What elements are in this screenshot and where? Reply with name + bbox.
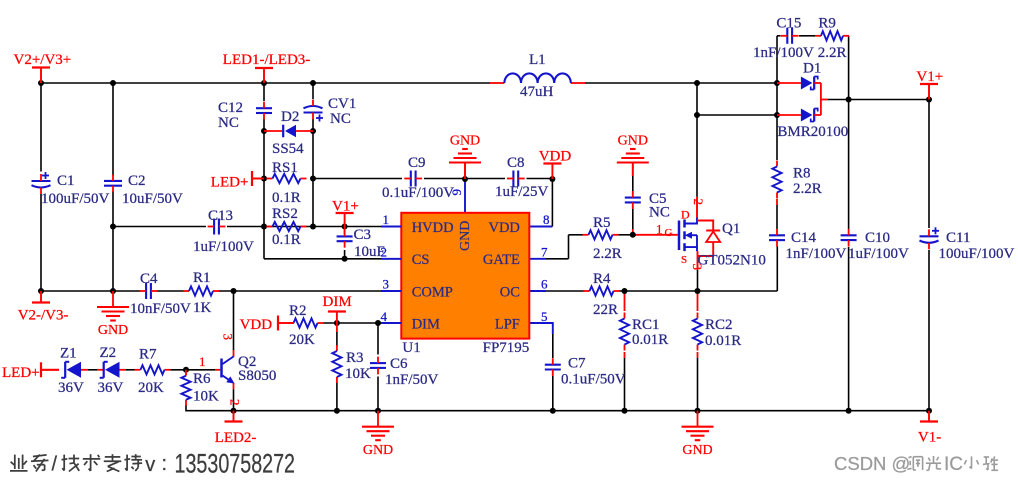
svg-text:1: 1 — [199, 354, 206, 369]
wire D1 lower anode row — [697, 114, 777, 116]
svg-text:S: S — [681, 254, 687, 266]
resistor R8 2.2R — [772, 161, 821, 199]
svg-text:D: D — [681, 208, 690, 222]
wire column x=264 upper — [263, 83, 265, 101]
wire column x=264 RS section — [263, 131, 265, 179]
svg-text:VDD: VDD — [240, 317, 273, 333]
junction dots D2 row — [261, 128, 267, 134]
svg-text:47uH: 47uH — [520, 84, 554, 100]
wire snubber top — [777, 35, 781, 37]
svg-text:NC: NC — [218, 115, 239, 131]
svg-text:10nF/50V: 10nF/50V — [130, 301, 191, 317]
wire C14 corner to source — [776, 247, 778, 292]
svg-text:SS54: SS54 — [272, 141, 304, 157]
wire R5 to gate junction — [619, 234, 633, 236]
svg-text:G: G — [665, 227, 673, 239]
svg-text:22R: 22R — [593, 302, 618, 318]
svg-text:5: 5 — [541, 309, 548, 324]
svg-text:1K: 1K — [193, 300, 212, 316]
wire column x=313 upper — [312, 83, 314, 99]
svg-text:C12: C12 — [218, 100, 243, 116]
resistor R3 10K — [332, 323, 371, 411]
capacitor C15 1nF/100V snubber — [753, 16, 814, 62]
svg-text:V1+: V1+ — [916, 69, 943, 85]
wire top rail V2+ to snubber left — [41, 82, 490, 84]
svg-text:VDD: VDD — [488, 220, 519, 236]
svg-text:NC: NC — [330, 111, 351, 127]
wire gate red — [633, 234, 678, 236]
svg-text:RS2: RS2 — [272, 206, 298, 222]
svg-text:10uF/50V: 10uF/50V — [122, 191, 183, 207]
wire column x=313 RS section — [312, 131, 314, 179]
diode D1 BMR20100 dual — [777, 61, 848, 141]
svg-text:GND: GND — [458, 221, 473, 251]
svg-text:0.01R: 0.01R — [705, 333, 741, 349]
svg-text:1nF/50V: 1nF/50V — [385, 372, 439, 388]
wire C5 gnd stem — [632, 163, 634, 177]
svg-text:GND: GND — [363, 443, 393, 458]
wire x929 vertical — [928, 100, 930, 229]
terminal DIM above R3 — [323, 294, 352, 323]
svg-text:10K: 10K — [345, 366, 371, 382]
svg-text:R7: R7 — [139, 347, 157, 363]
wire Q2 base row — [171, 369, 216, 371]
resistor R7 20K — [135, 347, 171, 397]
svg-text:GND: GND — [450, 134, 480, 149]
svg-text:1uF/100V: 1uF/100V — [193, 239, 254, 255]
svg-text:LED2-: LED2- — [215, 430, 257, 446]
svg-text:C11: C11 — [946, 230, 970, 246]
wire C13 pin1 row y=226.5 — [113, 226, 206, 228]
svg-text:GT052N10: GT052N10 — [698, 253, 766, 269]
junction dot R5 gate — [630, 232, 636, 238]
capacitor C13 1uF/100V — [193, 208, 254, 255]
node V1+ terminal at C3 — [332, 199, 359, 227]
wire Q2 collector — [233, 291, 235, 350]
ground GND above C9/C8 junction — [449, 134, 481, 180]
node LED+ terminal bottom left — [2, 362, 59, 381]
svg-text::: : — [162, 453, 168, 475]
capacitor C3 10uF — [337, 227, 385, 261]
svg-text:CS: CS — [412, 252, 430, 268]
capacitor C6 1nF/50V — [370, 323, 439, 411]
wire OC row — [529, 290, 546, 292]
svg-text:COMP: COMP — [412, 285, 453, 301]
svg-text:U1: U1 — [402, 340, 420, 356]
svg-text:C8: C8 — [507, 155, 525, 171]
capacitor CV1 NC polarized — [304, 96, 357, 127]
svg-text:3: 3 — [383, 277, 390, 292]
ground GND below C6 — [362, 411, 394, 458]
resistor R6 10K — [181, 370, 219, 406]
svg-text:RC1: RC1 — [632, 317, 660, 333]
terminal VDD at pin8 net — [539, 149, 572, 180]
wire COMP row y=291 — [41, 290, 140, 292]
resistor R9 2.2R snubber — [815, 16, 849, 62]
wire column x=113 (C2) — [112, 83, 114, 176]
svg-text:C4: C4 — [140, 271, 158, 287]
wire snubber x777 vertical — [776, 36, 778, 83]
pin stubs U1 left — [381, 226, 401, 228]
svg-text:1: 1 — [383, 212, 390, 227]
svg-text:0.1R: 0.1R — [272, 190, 301, 206]
svg-text:RS1: RS1 — [272, 160, 298, 176]
svg-text:10K: 10K — [193, 389, 219, 405]
svg-text:0.1uF/100V: 0.1uF/100V — [382, 185, 454, 201]
ground GND below RC2 — [682, 411, 714, 458]
svg-text:2.2R: 2.2R — [593, 246, 622, 262]
svg-text:OC: OC — [500, 285, 520, 301]
junction dot CS row — [342, 256, 348, 262]
svg-text:D2: D2 — [281, 109, 299, 125]
transistor Q2 S8050 — [199, 334, 276, 406]
node LED2- terminal — [215, 411, 257, 446]
svg-text:VDD: VDD — [539, 149, 572, 165]
svg-text:R3: R3 — [346, 350, 364, 366]
capacitor C2 10uF/50V — [104, 173, 183, 207]
svg-text:BMR20100: BMR20100 — [777, 124, 848, 140]
junction dots top rail — [38, 80, 44, 86]
resistor R2 20K — [288, 303, 324, 348]
node V1- terminal — [918, 411, 941, 446]
wire C5 column — [632, 176, 634, 193]
svg-text:2: 2 — [691, 199, 706, 206]
svg-text:1: 1 — [656, 222, 663, 237]
svg-text:CSDN @: CSDN @ — [834, 453, 910, 474]
svg-text:HVDD: HVDD — [412, 220, 454, 236]
svg-text:7: 7 — [541, 245, 548, 260]
svg-text:S8050: S8050 — [238, 368, 276, 384]
capacitor C10 1uF/100V — [841, 229, 909, 262]
junction dot Q2 base — [183, 367, 189, 373]
svg-text:GND: GND — [618, 134, 648, 149]
svg-text:GND: GND — [98, 323, 128, 338]
svg-text:C10: C10 — [865, 230, 890, 246]
svg-text:R8: R8 — [793, 166, 811, 182]
svg-text:IC: IC — [944, 454, 963, 475]
zener Z2 36V — [88, 345, 135, 396]
svg-text:V1-: V1- — [918, 430, 941, 446]
svg-text:C1: C1 — [57, 173, 75, 189]
bottom contact text — [10, 450, 295, 480]
wire Q1 source column — [697, 251, 699, 270]
ground GND below C2 — [97, 291, 129, 338]
svg-text:LED1-/LED3-: LED1-/LED3- — [223, 52, 310, 68]
svg-text:8: 8 — [543, 212, 550, 227]
wire CS row y=258.8 — [264, 258, 403, 260]
svg-text:1uF/25V: 1uF/25V — [495, 184, 549, 200]
wire pin5 stub — [529, 323, 553, 334]
wire V1+ row — [828, 99, 929, 101]
node LED+ terminal at RS1 — [211, 171, 264, 191]
diode D2 SS54 — [264, 109, 313, 157]
svg-text:v: v — [145, 454, 155, 476]
op-amp U1 FP7195 IC body — [401, 213, 529, 356]
svg-text:LED+: LED+ — [211, 175, 249, 191]
svg-text:GATE: GATE — [483, 252, 520, 268]
svg-text:LED+: LED+ — [2, 365, 40, 381]
junction dots RS1 row — [261, 176, 267, 182]
svg-text:0.01R: 0.01R — [632, 332, 668, 348]
capacitor C7 0.1uF/50V — [545, 356, 626, 388]
junction dots COMP row — [38, 288, 44, 294]
capacitor C12 NC — [218, 100, 272, 131]
svg-text:6: 6 — [541, 277, 548, 292]
svg-text:GND: GND — [682, 443, 712, 458]
wire x848 vertical — [848, 36, 850, 100]
svg-text:36V: 36V — [58, 380, 84, 396]
svg-text:R5: R5 — [593, 215, 611, 231]
svg-text:C6: C6 — [390, 356, 408, 372]
svg-text:2.2R: 2.2R — [793, 181, 822, 197]
svg-text:C15: C15 — [776, 16, 801, 32]
zener Z1 36V — [41, 346, 88, 397]
wire DIM row y=323 — [324, 322, 404, 324]
terminal VDD left of R2 — [240, 316, 294, 334]
svg-text:36V: 36V — [98, 380, 124, 396]
resistor R1 1K — [183, 270, 219, 316]
wire bottom rail — [234, 410, 930, 412]
resistor RC2 0.01R — [693, 313, 741, 351]
capacitor C8 1uF/25V — [495, 155, 549, 200]
svg-text:LPF: LPF — [495, 317, 520, 333]
wire left column V2 x=41 — [40, 83, 42, 172]
svg-text:C3: C3 — [354, 227, 372, 243]
svg-text:R1: R1 — [193, 270, 211, 286]
capacitor C11 100uF/100V — [920, 227, 1015, 262]
svg-text:DIM: DIM — [323, 294, 352, 310]
svg-text:C2: C2 — [128, 173, 146, 189]
svg-text:RC2: RC2 — [705, 317, 733, 333]
svg-text:Z1: Z1 — [60, 346, 77, 362]
svg-text:C9: C9 — [408, 155, 426, 171]
junction dots V1+ row — [846, 97, 852, 103]
svg-text:V1+: V1+ — [332, 199, 359, 215]
svg-text:20K: 20K — [138, 380, 164, 396]
svg-text:0.1uF/50V: 0.1uF/50V — [561, 371, 626, 387]
watermark CSDN — [834, 453, 998, 475]
wire GND9 stub — [464, 163, 466, 180]
svg-text:3: 3 — [221, 334, 236, 341]
svg-text:100uF/50V: 100uF/50V — [41, 191, 110, 207]
svg-text:Q1: Q1 — [722, 221, 740, 237]
wire VDD to pin8 — [551, 179, 553, 227]
svg-text:NC: NC — [649, 205, 670, 221]
wire L1 right lead — [571, 82, 585, 84]
wire RC1 column — [624, 291, 626, 311]
capacitor C4 10nF/50V — [130, 271, 191, 317]
svg-text:C13: C13 — [208, 208, 233, 224]
junction dots D1 rows — [694, 112, 700, 118]
junction dots DIM row — [334, 320, 340, 326]
svg-text:R9: R9 — [818, 16, 836, 32]
svg-text:100uF/100V: 100uF/100V — [939, 246, 1015, 262]
wire pin7 stub and corner — [529, 258, 546, 260]
svg-text:1uF/100V: 1uF/100V — [848, 246, 909, 262]
svg-text:1nF/100V: 1nF/100V — [753, 45, 814, 61]
svg-text:FP7195: FP7195 — [483, 340, 530, 356]
svg-text:0.1R: 0.1R — [272, 232, 301, 248]
resistor R5 2.2R — [583, 215, 622, 262]
svg-text:/: / — [52, 454, 58, 476]
junction dots bottom rail — [231, 408, 237, 414]
svg-text:13530758272: 13530758272 — [175, 450, 296, 480]
svg-text:DIM: DIM — [412, 317, 440, 333]
svg-text:20K: 20K — [289, 332, 315, 348]
node V2+/V3+ terminal — [14, 52, 72, 83]
wire RC2 column — [697, 291, 699, 311]
junction dots row226 — [110, 224, 116, 230]
node V2-/V3- terminal — [18, 291, 69, 324]
svg-text:R6: R6 — [193, 371, 211, 387]
capacitor C5 NC — [625, 191, 670, 221]
resistor RS2 0.1R — [267, 206, 307, 248]
svg-text:2: 2 — [228, 399, 243, 406]
resistor R4 22R — [584, 271, 620, 318]
svg-text:Z2: Z2 — [100, 345, 117, 361]
svg-text:V2-/V3-: V2-/V3- — [18, 308, 69, 324]
svg-text:1nF/100V: 1nF/100V — [786, 246, 847, 262]
wire RS1 row to C9 C8 VDD — [252, 178, 264, 180]
resistor RC1 0.01R — [620, 313, 668, 351]
svg-text:CV1: CV1 — [328, 96, 356, 112]
inductor L1 47uH — [504, 52, 570, 100]
capacitor C9 0.1uF/100V — [382, 155, 454, 201]
capacitor C14 1nF/100V — [769, 229, 847, 262]
svg-text:C7: C7 — [568, 356, 586, 372]
junction dots OC row — [622, 288, 628, 294]
resistor RS1 0.1R — [267, 160, 307, 206]
svg-text:2: 2 — [381, 245, 388, 260]
ground GND above C5 — [617, 134, 649, 177]
wire Q2 emitter — [233, 383, 235, 390]
svg-text:D1: D1 — [803, 61, 821, 77]
wire bottom rail right corner — [928, 410, 930, 412]
svg-text:2.2R: 2.2R — [818, 45, 847, 61]
svg-text:C14: C14 — [791, 230, 817, 246]
svg-text:9: 9 — [449, 189, 464, 196]
wire R8 to C14 — [776, 199, 778, 205]
node LED1-/LED3- terminal — [223, 52, 310, 83]
wire pin8 stub — [529, 226, 552, 228]
transistor Q1 GT052N10 MOSFET — [656, 199, 766, 271]
svg-text:V2+/V3+: V2+/V3+ — [14, 52, 72, 68]
svg-text:R4: R4 — [593, 271, 611, 287]
wire C7 column — [552, 334, 554, 358]
svg-text:L1: L1 — [529, 52, 546, 68]
node V1+ terminal right — [916, 69, 943, 100]
svg-text:4: 4 — [381, 309, 388, 324]
wire R6 bottom corner — [186, 405, 234, 411]
svg-text:R2: R2 — [289, 303, 307, 319]
wire L1 left lead — [490, 82, 504, 84]
wire Q1 drain column — [696, 83, 698, 197]
capacitor C1 polarized 100uF/50V — [32, 172, 110, 207]
